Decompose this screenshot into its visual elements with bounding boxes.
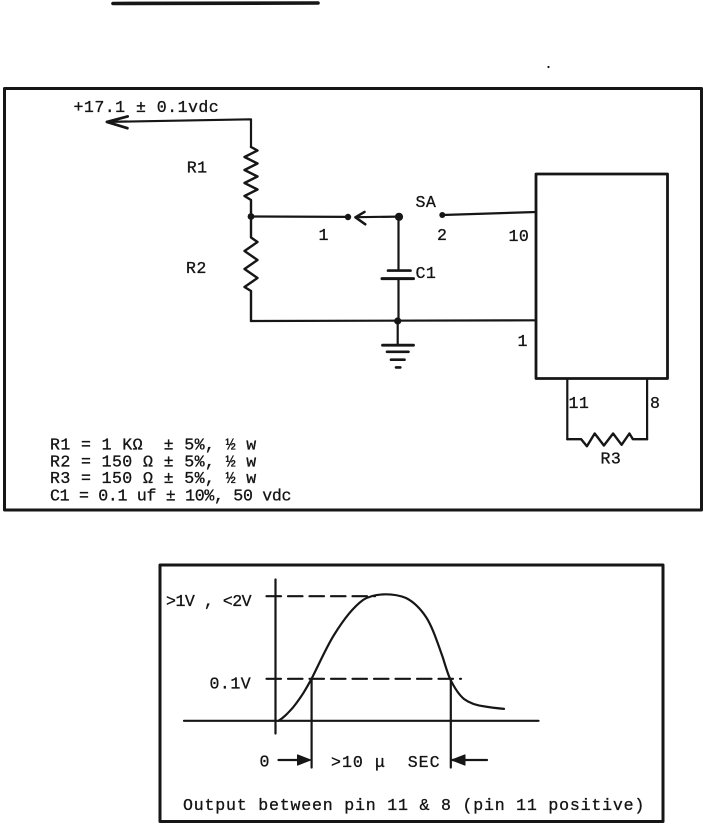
marker line t0 xyxy=(311,679,313,768)
component box U1 xyxy=(536,174,668,379)
svg-text:R3 = 150 Ω ± 5%, ½ w: R3 = 150 Ω ± 5%, ½ w xyxy=(50,469,257,488)
dashed level 2V xyxy=(267,595,376,597)
wire bottom bus to pin 1 xyxy=(251,319,536,322)
switch SA wiper arm with arrowhead xyxy=(355,212,399,224)
dashed level 0.1V xyxy=(267,678,462,680)
speck xyxy=(547,66,549,68)
svg-text:8: 8 xyxy=(650,394,660,413)
resistor R3 xyxy=(567,434,647,447)
waveform x-axis xyxy=(184,720,539,722)
figure border frame (schematic) xyxy=(5,89,702,511)
svg-text:>10 μ SEC: >10 μ SEC xyxy=(331,753,441,772)
node junction ground xyxy=(394,317,401,324)
svg-text:R2: R2 xyxy=(186,259,207,278)
node junction R1/R2 xyxy=(248,213,255,220)
svg-text:Output between pin 11 & 8 (pin: Output between pin 11 & 8 (pin 11 positi… xyxy=(183,796,645,815)
svg-text:+17.1 ± 0.1vdc: +17.1 ± 0.1vdc xyxy=(74,98,220,117)
svg-text:10: 10 xyxy=(509,227,530,246)
svg-text:1: 1 xyxy=(319,226,329,245)
svg-text:0.1V: 0.1V xyxy=(210,675,252,694)
svg-text:SA: SA xyxy=(416,193,437,212)
svg-text:0: 0 xyxy=(260,753,270,772)
svg-text:C1 = 0.1 uf ± 10%, 50 vdc: C1 = 0.1 uf ± 10%, 50 vdc xyxy=(50,487,291,506)
switch SA terminal 1 xyxy=(345,214,351,220)
pin 11 lead xyxy=(566,379,568,440)
svg-text:1: 1 xyxy=(518,332,528,351)
resistor R1 xyxy=(245,147,258,217)
supply arrowhead xyxy=(107,116,128,128)
svg-text:R3: R3 xyxy=(601,449,622,468)
waveform pulse curve xyxy=(279,594,505,721)
node junction C1 top xyxy=(395,213,403,221)
waveform y-axis xyxy=(274,580,276,734)
wire junction to switch pole xyxy=(251,215,348,218)
svg-text:2: 2 xyxy=(437,226,447,245)
svg-text:R1 = 1 KΩ ± 5%, ½ w: R1 = 1 KΩ ± 5%, ½ w xyxy=(50,435,257,454)
arrow right (t0) xyxy=(279,755,311,765)
arrow left (t1) xyxy=(452,755,487,765)
capacitor C1 xyxy=(382,216,414,321)
svg-text:R1: R1 xyxy=(187,159,208,178)
svg-text:C1: C1 xyxy=(416,264,437,283)
pin 8 lead xyxy=(646,379,648,440)
svg-text:>1V , <2V: >1V , <2V xyxy=(166,592,252,611)
marker line t1 xyxy=(450,679,452,768)
wire supply arrow shaft xyxy=(107,119,251,147)
waveform figure border frame xyxy=(160,565,663,822)
resistor R2 xyxy=(245,217,258,322)
ground xyxy=(383,321,414,367)
svg-text:11: 11 xyxy=(569,394,590,413)
switch SA terminal 2 xyxy=(439,212,445,218)
top rule xyxy=(113,1,318,5)
wire terminal 2 to pin 10 xyxy=(442,212,536,215)
